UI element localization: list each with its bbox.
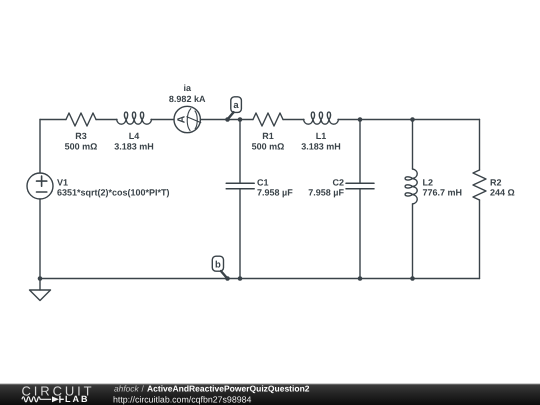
inductor L4 [117,112,152,124]
wire right branch R2 upper [479,120,481,171]
junction dot node a [225,117,230,122]
svg-text:b: b [215,259,221,270]
inductor L1 [304,112,339,124]
wire L2 branch lower [412,204,414,279]
wire node a to R1 [240,119,253,121]
wire left branch lower [39,199,41,279]
svg-text:7.958 µF: 7.958 µF [308,187,344,197]
footer bar [0,384,540,405]
wire L2 branch upper [412,120,414,170]
svg-text:L1: L1 [316,131,327,141]
svg-text:500 mΩ: 500 mΩ [252,141,285,151]
resistor R3 [66,113,96,126]
svg-text:A: A [176,115,188,123]
junction dot C2 bottom [358,276,363,281]
junction dot L2 top [410,117,415,122]
svg-text:8.982 kA: 8.982 kA [169,94,206,104]
wire C2 branch upper [359,120,361,184]
junction dot ground [38,276,43,281]
svg-text:R3: R3 [75,131,87,141]
svg-text:6351*sqrt(2)*cos(100*PI*T): 6351*sqrt(2)*cos(100*PI*T) [57,187,170,197]
svg-text:L4: L4 [129,131,140,141]
capacitor C2 [346,183,374,189]
voltage source V1 circle [27,173,53,199]
wire ammeter to node a [200,119,240,121]
capacitor C1 [226,183,254,189]
inductor L2 [405,169,417,204]
junction dot C2 top [358,117,363,122]
svg-text:R2: R2 [490,177,502,187]
wire L1 to top-right corner [338,119,480,121]
wire bottom horizontal [40,278,480,280]
svg-text:a: a [233,100,239,111]
wire R1 to L1 [283,119,304,121]
svg-text:ActiveAndReactivePowerQuizQues: ActiveAndReactivePowerQuizQuestion2 [147,384,310,394]
resistor R1 [253,113,283,126]
node b flag box [212,256,223,271]
node b leader line [221,271,227,278]
node a flag box [231,97,242,113]
svg-text:776.7 mH: 776.7 mH [423,187,463,197]
ammeter gauge arc left [187,109,191,131]
svg-text:C2: C2 [332,177,344,187]
wire top-left horizontal lead [40,119,66,121]
svg-text:L2: L2 [423,177,434,187]
V1 plus sign [37,176,47,186]
junction dot L2 bottom [410,276,415,281]
wire C1 branch upper [239,120,241,184]
svg-text:ahfock: ahfock [114,384,139,394]
wire left branch upper [39,120,41,174]
svg-text:ia: ia [183,83,192,93]
ammeter probe ia circle [174,106,200,132]
svg-text:V1: V1 [57,177,68,187]
svg-text:3.183 mH: 3.183 mH [114,141,154,151]
svg-text:7.958 µF: 7.958 µF [257,187,293,197]
junction dot C1 bottom [238,276,243,281]
svg-text:500 mΩ: 500 mΩ [65,141,98,151]
svg-text:3.183 mH: 3.183 mH [301,141,341,151]
wire R3 to L4 [96,119,117,121]
wire C1 branch lower [239,189,241,279]
wire right branch R2 lower [479,200,481,279]
logo resistor zigzag [22,397,51,402]
V1 minus sign [37,191,47,193]
wire L4 to ammeter [151,119,174,121]
ground stem [39,279,41,291]
junction dot node b [225,276,230,281]
ammeter needle line [187,117,201,123]
ammeter gauge arc right [195,111,197,129]
svg-text:http://circuitlab.com/cqfbn27s: http://circuitlab.com/cqfbn27s98984 [113,395,251,405]
svg-text:R1: R1 [262,131,274,141]
node a leader line [228,112,234,119]
svg-text:LAB: LAB [65,394,90,404]
wire C2 branch lower [359,189,361,279]
svg-text:C1: C1 [257,177,269,187]
footer bar top edge [0,383,540,386]
svg-text:244 Ω: 244 Ω [490,187,515,197]
logo diode bar [60,396,64,403]
junction dot C1 top [238,117,243,122]
ground triangle [30,290,51,301]
logo diode [52,396,59,402]
resistor R2 [473,170,486,200]
